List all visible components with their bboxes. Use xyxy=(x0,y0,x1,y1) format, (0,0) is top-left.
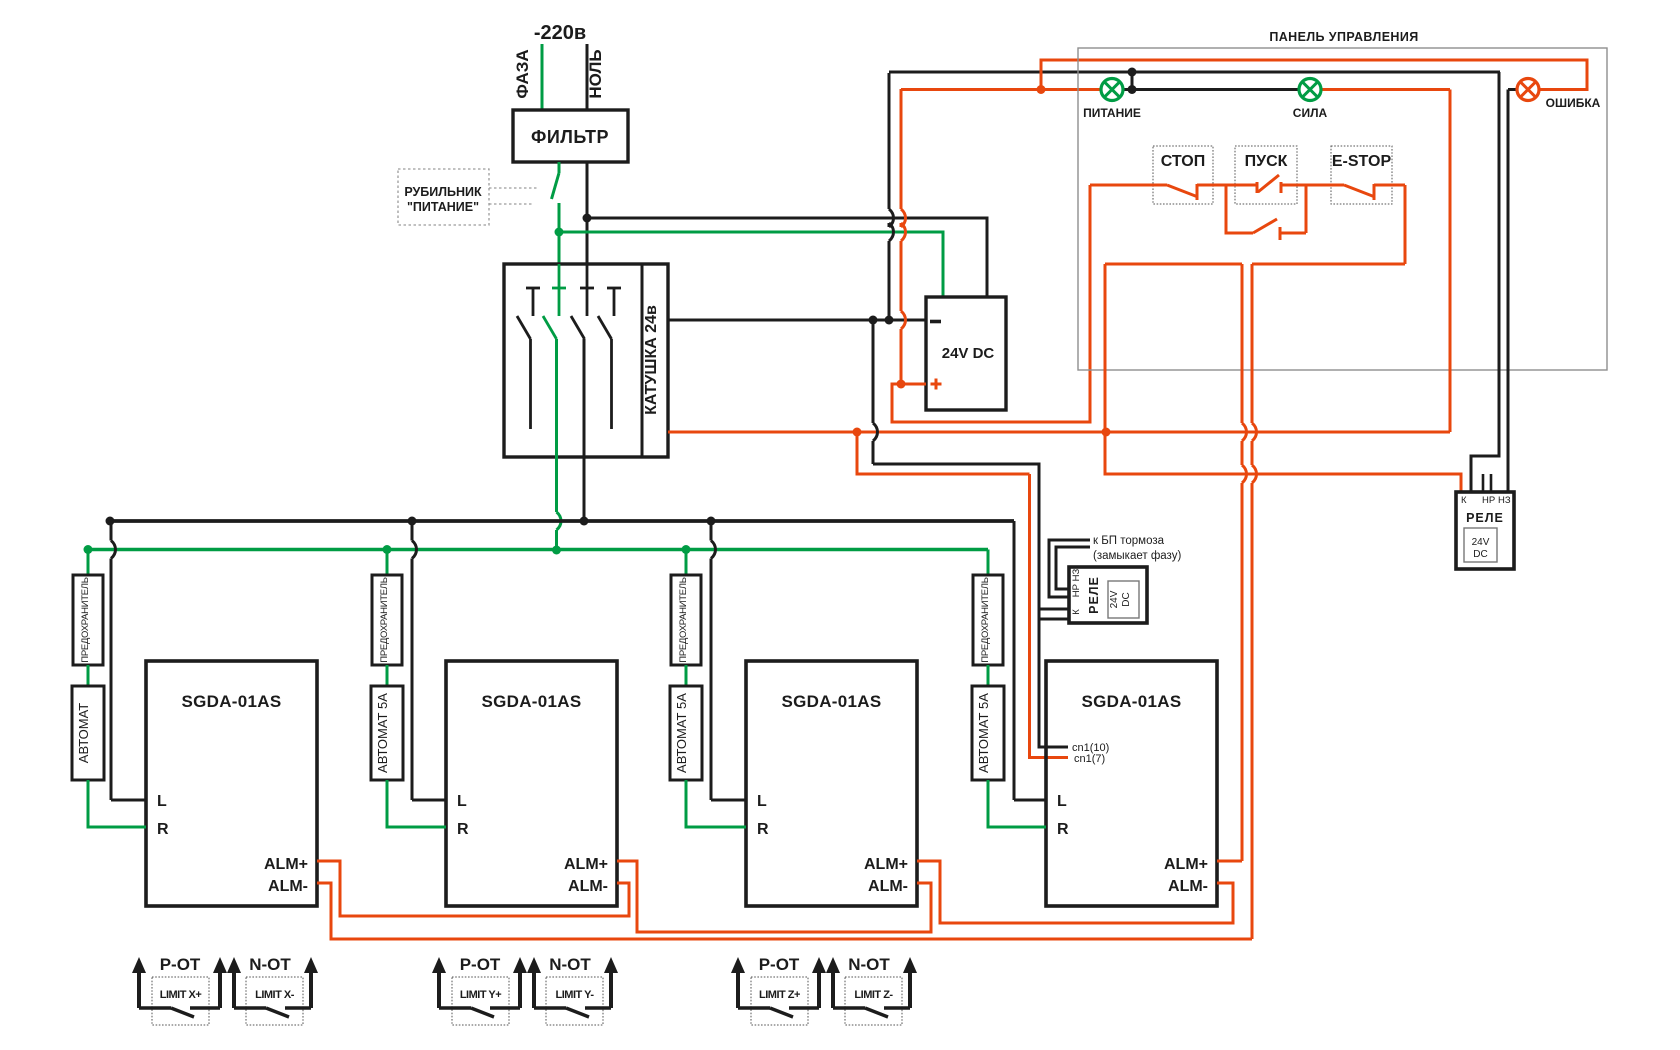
svg-text:LIMIT Y-: LIMIT Y- xyxy=(556,989,595,1001)
svg-text:DC: DC xyxy=(1473,549,1487,560)
svg-text:P-OT: P-OT xyxy=(759,955,800,974)
svg-text:L: L xyxy=(1057,793,1067,810)
svg-text:РЕЛЕ: РЕЛЕ xyxy=(1466,511,1504,525)
svg-text:АВТОМАТ 5А: АВТОМАТ 5А xyxy=(674,693,689,773)
svg-text:R: R xyxy=(157,821,169,838)
svg-text:SGDA-01AS: SGDA-01AS xyxy=(481,692,581,711)
svg-text:СИЛА: СИЛА xyxy=(1293,106,1328,120)
svg-text:E-STOP: E-STOP xyxy=(1332,153,1392,170)
svg-text:ALM-: ALM- xyxy=(568,878,608,895)
svg-text:SGDA-01AS: SGDA-01AS xyxy=(781,692,881,711)
svg-text:P-OT: P-OT xyxy=(160,955,201,974)
svg-text:L: L xyxy=(457,793,467,810)
svg-text:ALM-: ALM- xyxy=(268,878,308,895)
svg-text:КАТУШКА 24в: КАТУШКА 24в xyxy=(643,305,660,415)
svg-text:ПРЕДОХРАНИТЕЛЬ: ПРЕДОХРАНИТЕЛЬ xyxy=(379,577,390,662)
svg-text:ОШИБКА: ОШИБКА xyxy=(1546,96,1601,110)
svg-text:ALM+: ALM+ xyxy=(264,856,308,873)
svg-text:P-OT: P-OT xyxy=(460,955,501,974)
svg-text:ПАНЕЛЬ УПРАВЛЕНИЯ: ПАНЕЛЬ УПРАВЛЕНИЯ xyxy=(1269,30,1418,44)
svg-text:ALM+: ALM+ xyxy=(564,856,608,873)
svg-text:НОЛЬ: НОЛЬ xyxy=(586,49,605,98)
svg-text:К: К xyxy=(1071,609,1082,615)
svg-text:ФИЛЬТР: ФИЛЬТР xyxy=(531,127,609,147)
svg-text:ALM-: ALM- xyxy=(1168,878,1208,895)
svg-text:ФАЗА: ФАЗА xyxy=(513,49,532,98)
svg-text:ALM-: ALM- xyxy=(868,878,908,895)
svg-text:R: R xyxy=(757,821,769,838)
svg-text:ALM+: ALM+ xyxy=(1164,856,1208,873)
svg-text:НР: НР xyxy=(1482,495,1495,506)
svg-text:SGDA-01AS: SGDA-01AS xyxy=(181,692,281,711)
svg-text:ПРЕДОХРАНИТЕЛЬ: ПРЕДОХРАНИТЕЛЬ xyxy=(980,577,991,662)
svg-text:АВТОМАТ 5А: АВТОМАТ 5А xyxy=(976,693,991,773)
svg-text:R: R xyxy=(1057,821,1069,838)
svg-text:N-OT: N-OT xyxy=(249,955,291,974)
svg-text:"ПИТАНИЕ": "ПИТАНИЕ" xyxy=(407,200,479,214)
svg-text:cn1(7): cn1(7) xyxy=(1074,753,1105,765)
svg-text:LIMIT Z+: LIMIT Z+ xyxy=(759,989,800,1001)
svg-text:LIMIT Z-: LIMIT Z- xyxy=(854,989,893,1001)
svg-text:N-OT: N-OT xyxy=(549,955,591,974)
svg-text:НР НЗ: НР НЗ xyxy=(1071,569,1082,598)
svg-text:РУБИЛЬНИК: РУБИЛЬНИК xyxy=(404,185,482,199)
svg-text:ПРЕДОХРАНИТЕЛЬ: ПРЕДОХРАНИТЕЛЬ xyxy=(80,577,91,662)
svg-text:L: L xyxy=(757,793,767,810)
svg-text:СТОП: СТОП xyxy=(1161,153,1205,170)
svg-text:НЗ: НЗ xyxy=(1498,495,1511,506)
svg-text:К: К xyxy=(1461,495,1467,506)
svg-text:ПИТАНИЕ: ПИТАНИЕ xyxy=(1083,106,1141,120)
svg-text:-220в: -220в xyxy=(534,22,586,44)
svg-text:РЕЛЕ: РЕЛЕ xyxy=(1087,576,1101,614)
svg-text:SGDA-01AS: SGDA-01AS xyxy=(1081,692,1181,711)
svg-text:24V DC: 24V DC xyxy=(942,345,995,362)
svg-text:24V: 24V xyxy=(1109,590,1120,608)
svg-text:ALM+: ALM+ xyxy=(864,856,908,873)
svg-text:к БП тормоза: к БП тормоза xyxy=(1093,535,1165,547)
svg-text:ПРЕДОХРАНИТЕЛЬ: ПРЕДОХРАНИТЕЛЬ xyxy=(678,577,689,662)
svg-text:N-OT: N-OT xyxy=(848,955,890,974)
svg-text:LIMIT X-: LIMIT X- xyxy=(255,989,295,1001)
svg-text:R: R xyxy=(457,821,469,838)
svg-text:АВТОМАТ 5А: АВТОМАТ 5А xyxy=(375,693,390,773)
svg-text:LIMIT X+: LIMIT X+ xyxy=(160,989,202,1001)
svg-text:24V: 24V xyxy=(1472,537,1490,548)
svg-text:DC: DC xyxy=(1121,592,1132,606)
svg-text:(замыкает фазу): (замыкает фазу) xyxy=(1093,550,1181,562)
svg-text:АВТОМАТ: АВТОМАТ xyxy=(76,703,91,763)
svg-text:LIMIT Y+: LIMIT Y+ xyxy=(460,989,501,1001)
svg-text:L: L xyxy=(157,793,167,810)
svg-text:ПУСК: ПУСК xyxy=(1245,153,1288,170)
